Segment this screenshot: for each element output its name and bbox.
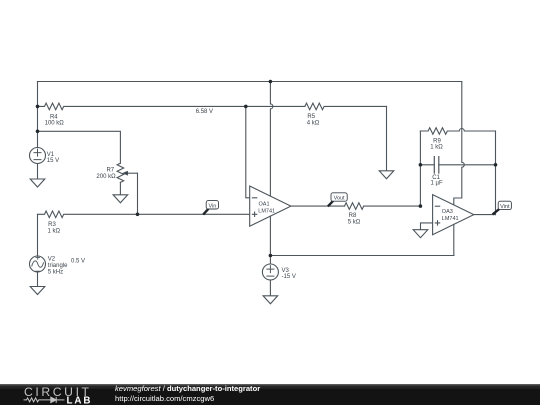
svg-text:1 kΩ: 1 kΩ: [48, 229, 61, 235]
op-amp OA1: [250, 186, 291, 226]
svg-text:0.5 V: 0.5 V: [71, 258, 85, 264]
footer logo CIRCUIT: [24, 385, 90, 399]
wire OA1 inverting input branch: [246, 106, 250, 197]
wire V2 to ground: [37, 272, 39, 287]
voltage source V3: [262, 256, 278, 281]
ground (R7): [113, 195, 128, 203]
resistor R9 with hop over V+ line: [420, 128, 495, 135]
footer bar: [0, 384, 540, 405]
wire OA3 V+ from top rail with hop over C1 wire: [454, 82, 465, 206]
svg-text:LM741: LM741: [442, 216, 459, 222]
ground (V1): [30, 179, 45, 187]
wire OA1 V- pin to -15V rail: [269, 216, 271, 255]
node flag Vout: [328, 193, 347, 207]
svg-text:1 µF: 1 µF: [431, 181, 443, 187]
resistor R3: [38, 211, 250, 218]
svg-text:Vout: Vout: [334, 196, 345, 202]
svg-text:http://circuitlab.com/cmzcgw6: http://circuitlab.com/cmzcgw6: [115, 394, 214, 403]
ground (OA3 +): [413, 230, 428, 238]
label R8 value: [348, 213, 361, 225]
svg-text:OA3: OA3: [442, 209, 453, 215]
svg-text:5 kΩ: 5 kΩ: [348, 219, 361, 225]
svg-text:1 kΩ: 1 kΩ: [430, 144, 443, 150]
svg-text:Vint: Vint: [500, 204, 510, 210]
node flag Vin: [203, 201, 218, 215]
node junction dots: [36, 80, 498, 258]
svg-text:R4: R4: [50, 114, 58, 120]
svg-text:15 V: 15 V: [47, 158, 59, 164]
label V2 value: [48, 256, 85, 275]
svg-text:100 kΩ: 100 kΩ: [45, 121, 65, 127]
label R9 value: [430, 139, 443, 151]
svg-text:R8: R8: [349, 213, 357, 219]
wire R7 wiper down to signal: [137, 173, 139, 214]
label R3 value: [48, 222, 61, 235]
label V3 value: [282, 268, 296, 280]
svg-text:-15 V: -15 V: [282, 274, 296, 280]
wire R3 left to V2: [37, 214, 39, 256]
voltage source V2 triangle: [30, 256, 46, 272]
svg-text:R3: R3: [48, 222, 56, 228]
svg-text:6.58 V: 6.58 V: [196, 109, 213, 115]
wire R7 bottom to ground: [119, 182, 121, 194]
wire OA3 output: [474, 214, 496, 216]
footer logo LAB: [67, 396, 91, 405]
label V1 value: [47, 152, 59, 164]
footer title text: [115, 384, 260, 403]
wire C1 node down to OA3 output: [495, 165, 497, 215]
footer logo resistor-diode glyph: [24, 397, 65, 403]
resistor R4: [38, 103, 246, 110]
label OA3: [442, 209, 459, 222]
resistor R8: [345, 203, 421, 210]
ground (V2): [30, 287, 45, 295]
label C1 value: [431, 175, 443, 187]
ground (V3): [263, 296, 278, 304]
voltage source V1: [30, 148, 46, 164]
svg-text:triangle: triangle: [48, 263, 68, 269]
potentiometer R7: [117, 163, 137, 182]
svg-text:LAB: LAB: [67, 396, 91, 405]
label R7 value: [96, 167, 116, 180]
svg-text:4 kΩ: 4 kΩ: [307, 120, 320, 126]
wire R4 output to R5 with node: [246, 105, 305, 107]
wire OA3 noninverting input to ground: [421, 223, 433, 230]
label R5 value: [307, 114, 320, 126]
svg-text:kevmegforest / dutychanger-to-: kevmegforest / dutychanger-to-integrator: [115, 384, 260, 393]
wire -15V rail: [270, 255, 453, 257]
svg-text:5 kHz: 5 kHz: [48, 269, 63, 275]
wire OA1 V+ pin from top rail with hop: [270, 82, 273, 197]
svg-text:LM741: LM741: [258, 208, 275, 214]
svg-text:R7: R7: [106, 167, 114, 173]
wire V1 to ground: [37, 164, 39, 180]
node voltage label 6.58 V: [196, 109, 213, 115]
wire node to R7 top: [38, 131, 121, 163]
svg-text:Vin: Vin: [208, 203, 216, 209]
wire OA3 V- pin to -15V rail: [453, 224, 455, 255]
op-amp OA3: [433, 195, 474, 235]
svg-text:OA1: OA1: [259, 202, 270, 208]
label R4 value: [45, 114, 65, 126]
wire feedback left vertical: [419, 131, 421, 206]
svg-text:R5: R5: [307, 114, 315, 120]
wire V3 to ground: [269, 280, 271, 296]
wire R9 right down to C1 node: [495, 131, 497, 165]
resistor R5: [305, 103, 387, 110]
ground (R5): [379, 171, 394, 179]
svg-text:V2: V2: [48, 256, 56, 262]
wire R5 to ground: [386, 106, 388, 170]
wire left vertical V1 branch: [37, 82, 39, 148]
wire OA1 output: [291, 205, 345, 207]
node flag Vint: [493, 201, 512, 214]
capacitor C1: [420, 157, 495, 173]
label OA1: [258, 202, 275, 215]
wire top +15V rail: [38, 81, 462, 83]
svg-text:200 kΩ: 200 kΩ: [96, 174, 116, 180]
